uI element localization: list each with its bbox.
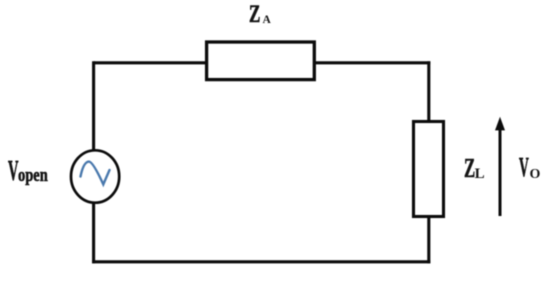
label Z_A : Z (249, 2, 260, 27)
label Z_L : Z (464, 155, 475, 182)
label Z_A : A subscript (263, 15, 271, 27)
wire top-left horizontal (94, 61, 207, 64)
wire right vertical upper (427, 61, 430, 121)
wire bottom horizontal (92, 260, 430, 263)
wire left vertical upper (92, 61, 95, 149)
label V_O : O subscript (530, 168, 541, 182)
label V_open : open subscript (18, 166, 48, 185)
impedance Z_A box (207, 42, 315, 80)
wire left vertical lower (92, 204, 95, 264)
impedance Z_L box (414, 122, 444, 217)
V_O arrow (495, 117, 505, 216)
AC voltage source circle (71, 150, 119, 202)
label V_open : V (8, 157, 18, 186)
wire top-right horizontal (314, 61, 430, 64)
wire right vertical lower (427, 217, 430, 264)
AC source sine wave (81, 162, 110, 185)
label Z_L : L subscript (475, 167, 485, 182)
label V_O : V (519, 154, 529, 181)
